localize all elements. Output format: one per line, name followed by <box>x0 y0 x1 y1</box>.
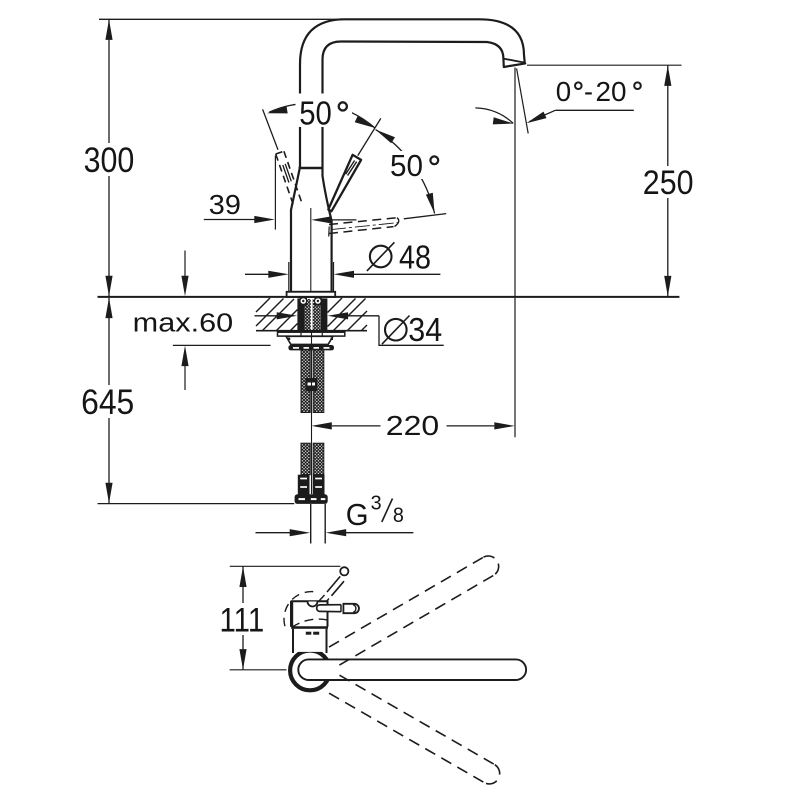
111 dimension <box>242 567 244 670</box>
dashed lever inner stripe <box>283 165 289 183</box>
dashed lever axis extension line <box>263 109 278 150</box>
svg-text:50: 50 <box>299 94 332 131</box>
svg-text:-: - <box>584 76 593 107</box>
50deg label #1 <box>296 94 353 128</box>
shank walls <box>297 298 304 331</box>
50deg arc #2 (solid lever to lowered dashed position) <box>376 130 435 214</box>
raised lever knob (plan) <box>340 567 348 575</box>
base plate of faucet on deck <box>287 292 336 297</box>
0-20 leader <box>555 109 634 111</box>
hose end fittings <box>298 475 310 495</box>
deck slab bottom line <box>256 330 367 332</box>
spout tube and faucet body outline <box>291 19 525 292</box>
spout capsule (plan, solid) <box>298 659 526 680</box>
faucet centre axis line <box>310 208 312 297</box>
lever inner stripe <box>346 161 355 175</box>
outlet vertical reference line <box>514 68 516 438</box>
dashed spout position -30 down (plan) <box>329 675 500 784</box>
lever axis extension line <box>358 118 381 155</box>
deck slab hatching left zone <box>256 298 298 331</box>
deck slab hatching right zone <box>328 298 368 331</box>
O34 dimension <box>255 315 278 317</box>
300 dimension <box>108 19 110 296</box>
raised lever shaft strokes (plan) <box>327 576 340 592</box>
220 dimension <box>311 422 332 429</box>
G 3/8 connection tube <box>310 504 312 544</box>
svg-text:250: 250 <box>643 164 694 202</box>
svg-text:39: 39 <box>209 189 241 220</box>
thread band <box>288 345 334 350</box>
svg-text:G: G <box>346 497 369 532</box>
svg-text:111: 111 <box>220 601 265 639</box>
svg-text:48: 48 <box>399 238 431 275</box>
dashed swivel arc of lever (plan) <box>284 592 319 627</box>
111 bottom extension line <box>230 669 287 671</box>
svg-text:220: 220 <box>386 410 439 441</box>
max.60 dimension <box>184 251 186 277</box>
G 3/8 dimension <box>256 532 291 534</box>
small fitting on centre line <box>306 378 318 391</box>
svg-text:3: 3 <box>371 493 382 515</box>
svg-text:645: 645 <box>81 382 134 422</box>
svg-text:300: 300 <box>84 141 135 180</box>
50deg arc #1 (between upright dashed lever and solid lever) <box>269 103 375 127</box>
connector bar <box>295 494 328 504</box>
hoses lower run after break <box>301 443 310 475</box>
swivel seam line on body <box>299 167 322 170</box>
lowered lever axis extension line <box>404 214 446 219</box>
645 dimension <box>108 298 110 504</box>
washer under deck <box>278 332 345 336</box>
aerator seam at outlet <box>503 59 524 63</box>
dashed lever (upright position) <box>276 151 302 204</box>
base ring (escutcheon, plan) <box>290 651 330 691</box>
39 dimension <box>274 156 276 230</box>
dashed spout position +30 up (plan) <box>329 556 499 665</box>
solid lever handle (raised position) <box>328 155 361 212</box>
645 bottom extension line <box>98 503 295 505</box>
111 top extension line <box>230 565 341 567</box>
svg-text:0: 0 <box>556 76 571 107</box>
O48 dimension <box>288 262 290 298</box>
hoses below deck (upper run) <box>301 331 310 413</box>
hose ports at shank top <box>300 298 307 306</box>
svg-text:20: 20 <box>596 76 627 107</box>
pivot notch arc (plan) <box>308 602 318 607</box>
cartridge cap rect (plan) <box>292 601 328 627</box>
50deg label #2 <box>387 151 443 179</box>
tilted stream line 0-20 <box>517 69 529 134</box>
cone flange with lock nut <box>286 336 333 344</box>
svg-text:50: 50 <box>390 149 423 183</box>
threaded shank through deck: hoses crosshatch <box>304 299 310 331</box>
centre axis line below deck <box>311 331 313 494</box>
body mid section (plan) <box>291 626 328 629</box>
0-20 angle arc <box>475 108 513 124</box>
deck (counter) line <box>98 296 680 298</box>
250 dimension <box>527 64 682 66</box>
dashed lever-forward arc across cap (plan) <box>292 619 330 627</box>
svg-text:max.60: max.60 <box>133 309 233 337</box>
extension line top of spout for 300 dim <box>99 18 340 20</box>
lever horizontal (plan) <box>319 605 341 612</box>
svg-text:34: 34 <box>408 311 442 348</box>
dashed lever (lowered position, pointing right) <box>329 218 396 234</box>
svg-text:8: 8 <box>393 504 404 527</box>
